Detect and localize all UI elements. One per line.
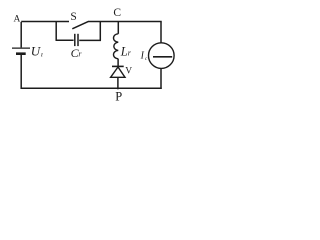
svg-text:ı: ı xyxy=(41,50,43,59)
svg-text:r: r xyxy=(128,49,132,58)
wire right branch lower xyxy=(160,68,162,89)
svg-text:A: A xyxy=(14,15,21,25)
wire coil to diode xyxy=(117,59,119,67)
svg-text:r: r xyxy=(78,50,82,59)
wire left branch lower xyxy=(20,55,22,89)
battery U1 short plate xyxy=(16,52,26,55)
capacitor Cr plate right xyxy=(77,34,79,46)
svg-text:L: L xyxy=(120,45,128,59)
svg-text:V: V xyxy=(125,67,132,77)
current source Ic circle xyxy=(149,43,175,69)
svg-text:P: P xyxy=(115,90,122,104)
wire node C riser xyxy=(117,22,119,34)
battery U1 long plate xyxy=(12,47,30,49)
wire top-left segment (A corner to switch left contact) xyxy=(21,21,69,23)
wire capacitor riser right xyxy=(99,22,101,41)
capacitor Cr lead right xyxy=(79,39,101,41)
current source Ic bar xyxy=(153,56,172,58)
wire left branch upper xyxy=(20,22,22,47)
wire bottom xyxy=(21,87,162,89)
inductor Lr coil xyxy=(114,34,119,59)
svg-text:C: C xyxy=(113,7,121,19)
wire right branch upper xyxy=(160,22,162,44)
capacitor Cr plate left xyxy=(74,34,76,46)
diode V triangle xyxy=(111,67,125,77)
switch S xyxy=(72,21,88,29)
wire diode to bottom xyxy=(117,77,119,89)
svg-text:S: S xyxy=(70,11,76,23)
diode V cathode bar xyxy=(112,65,124,67)
wire capacitor lead left xyxy=(56,39,74,41)
svg-text:c: c xyxy=(145,56,148,62)
svg-text:I: I xyxy=(140,51,145,62)
wire capacitor riser left xyxy=(55,22,57,41)
wire top-right segment (switch to right corner) xyxy=(89,21,162,23)
